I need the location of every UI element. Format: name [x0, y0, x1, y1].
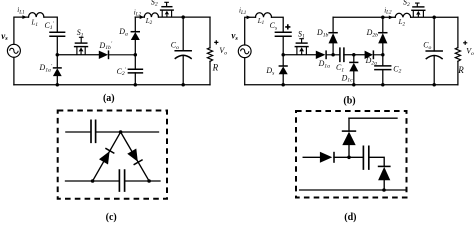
diode on right diagonal (c)	[127, 149, 142, 165]
wire: L1 to Cs corner (b)	[272, 17, 284, 32]
mosfet S2 (a)	[160, 2, 174, 17]
svg-text:(c): (c)	[106, 212, 117, 223]
resistor R zigzag (a)	[207, 48, 212, 62]
diode D1b (b)	[328, 33, 337, 44]
mosfet S1 (b)	[295, 39, 309, 55]
voltage source vs (a)	[7, 44, 20, 57]
wire: middle rail n1 to D1b' (a)	[57, 54, 99, 56]
diode on left diagonal (c)	[99, 148, 114, 164]
capacitor Co curved plate (b)	[426, 56, 442, 59]
capacitor C2' leads (a)	[134, 55, 136, 85]
node dots (c)	[119, 130, 123, 134]
svg-text:Ds: Ds	[265, 66, 275, 76]
left diode (d)	[320, 152, 334, 163]
wire: Cs to node (b)	[282, 36, 284, 55]
svg-text:R: R	[212, 63, 219, 73]
right diode bottom lead (d)	[383, 180, 385, 190]
svg-text:C1′: C1′	[45, 21, 55, 31]
capacitor C2' (a)	[128, 69, 142, 73]
diode D1a' leads (a)	[56, 55, 58, 85]
label plus (a)	[214, 40, 218, 44]
svg-text:D2b: D2b	[366, 28, 379, 38]
diode D2b (b)	[378, 33, 387, 44]
svg-text:Da: Da	[118, 27, 128, 37]
wire: C1 to D2a (b)	[344, 54, 365, 56]
capacitor C2 leads (b)	[382, 55, 384, 85]
capacitor Co top plate (b)	[426, 50, 442, 52]
wire: Da corner to L2 (a)	[135, 16, 144, 18]
diode Ds (b)	[279, 66, 288, 74]
dashed box (c)	[58, 111, 167, 199]
svg-text:Vo: Vo	[466, 46, 474, 56]
wire: right edge with resistor leads (a)	[209, 17, 211, 85]
diode D1c leads (b)	[353, 55, 355, 85]
wire: circuit (a) vs top lead and top-left rail	[14, 17, 29, 44]
wire: circuit (b) vs top lead and top-left rail	[245, 17, 256, 45]
up diode leads (d)	[348, 118, 350, 157]
wire: box (c) top rail	[66, 131, 159, 133]
capacitor C1' (a)	[50, 32, 65, 36]
svg-text:Cs: Cs	[270, 21, 278, 31]
node dots (d)	[347, 156, 351, 160]
svg-text:D1b′: D1b′	[99, 41, 113, 51]
up diode (d)	[342, 131, 356, 145]
capacitor Co curved plate (a)	[175, 55, 191, 58]
capacitor on bottom rail (c)	[119, 170, 124, 191]
wire: middle rail node to D1a (b)	[283, 54, 316, 56]
capacitor C2 plates (b)	[375, 66, 391, 70]
wire: vs bottom lead (b)	[244, 58, 246, 85]
svg-text:(b): (b)	[343, 96, 355, 107]
svg-text:Vo: Vo	[219, 46, 227, 56]
inductor L2 (b)	[395, 13, 411, 17]
label plus (b)	[463, 41, 467, 45]
current arrow iL1 (a)	[22, 15, 27, 19]
wire: vs bottom lead (a)	[13, 57, 15, 84]
svg-text:C1: C1	[336, 63, 344, 73]
capacitor C1 plates (b)	[340, 48, 344, 61]
dashed box (d)	[296, 111, 407, 198]
wire: box (d) top rail	[349, 117, 397, 119]
capacitor Cs (b)	[275, 32, 291, 36]
diode Da leads (a)	[134, 17, 136, 55]
capacitor Co top plate (a)	[175, 50, 191, 52]
wire: box (d) bottom rail	[300, 189, 406, 191]
voltage source vs (b)	[238, 45, 251, 58]
wire: top-right rail L2 to corner (a)	[159, 16, 211, 18]
svg-text:L1: L1	[257, 17, 264, 26]
svg-text:R: R	[457, 65, 464, 75]
inductor L1 (a)	[29, 13, 44, 18]
svg-text:Co: Co	[423, 40, 431, 50]
diode D1a (b)	[316, 50, 340, 59]
wire: right diagonal (c)	[121, 132, 150, 181]
capacitor on top rail (c)	[91, 120, 96, 142]
right diode (d)	[378, 166, 391, 180]
current arrow iL2 (b)	[389, 16, 394, 20]
svg-text:S1: S1	[298, 29, 305, 39]
diode D2a (b)	[365, 50, 383, 59]
wire: left diagonal (c)	[93, 132, 121, 181]
svg-text:(a): (a)	[103, 93, 115, 104]
svg-text:iL2: iL2	[384, 6, 392, 15]
diode D2b leads (b)	[382, 17, 384, 55]
svg-text:L2: L2	[145, 17, 153, 26]
diode D1b leads (b)	[332, 17, 334, 55]
capacitor plates (d)	[363, 146, 368, 169]
wire: left diode to capacitor (d)	[334, 156, 363, 158]
node dots (a)	[56, 53, 60, 57]
current arrow iL1 (b)	[247, 16, 252, 20]
svg-text:L1: L1	[31, 19, 38, 28]
svg-text:iL2: iL2	[134, 8, 142, 17]
svg-text:S2: S2	[403, 0, 410, 8]
svg-text:D1a′: D1a′	[39, 63, 53, 73]
wire: bottom rail (a)	[14, 84, 210, 86]
svg-text:D2a: D2a	[365, 56, 378, 66]
wire: box (c) bottom rail	[66, 180, 161, 182]
current arrow iL2 (a)	[140, 15, 145, 19]
mosfet S1 (a)	[74, 37, 88, 55]
label plus at Cs (b)	[285, 24, 290, 29]
diode D1a' (a)	[53, 68, 62, 76]
capacitor Co leads (b)	[433, 17, 435, 85]
svg-text:vs: vs	[231, 30, 238, 41]
inductor L1 (b)	[256, 13, 272, 18]
svg-text:D1c: D1c	[341, 73, 354, 83]
svg-text:(d): (d)	[344, 212, 356, 223]
diode Da (a)	[131, 32, 140, 40]
wire: capacitor jog down to right diode (d)	[369, 157, 384, 166]
svg-text:S1: S1	[77, 28, 84, 38]
wire: C1' to node n1 (a)	[56, 36, 58, 55]
svg-text:iL1: iL1	[239, 7, 246, 16]
svg-text:S2: S2	[151, 0, 158, 8]
wire: box (d) middle rail	[303, 156, 320, 158]
diode D1c (b)	[349, 62, 358, 71]
wire: bottom rail (b)	[245, 84, 458, 86]
svg-text:Co: Co	[171, 41, 179, 51]
svg-text:C2: C2	[393, 64, 401, 74]
svg-text:D1b: D1b	[316, 28, 329, 38]
svg-text:D1a: D1a	[318, 59, 331, 69]
wire: L2 to right corner (b)	[411, 16, 458, 18]
resistor R zigzag (b)	[455, 48, 460, 62]
capacitor Co leads (a)	[182, 17, 184, 85]
node dots (b)	[281, 53, 285, 57]
svg-text:C2′: C2′	[117, 67, 127, 77]
svg-text:L2: L2	[398, 18, 406, 27]
inductor L2 (a)	[144, 13, 158, 17]
mosfet S2 (b)	[411, 3, 425, 17]
wire: L1 to C1' corner (a)	[44, 17, 57, 32]
wire: right edge with resistor leads (b)	[457, 17, 459, 85]
svg-text:iL1: iL1	[17, 6, 24, 15]
svg-text:vs: vs	[1, 31, 8, 42]
diode D1b' (a)	[99, 50, 136, 59]
wire: top rail D1b corner to L2 (b)	[333, 16, 395, 18]
diode Ds leads (b)	[282, 55, 284, 85]
